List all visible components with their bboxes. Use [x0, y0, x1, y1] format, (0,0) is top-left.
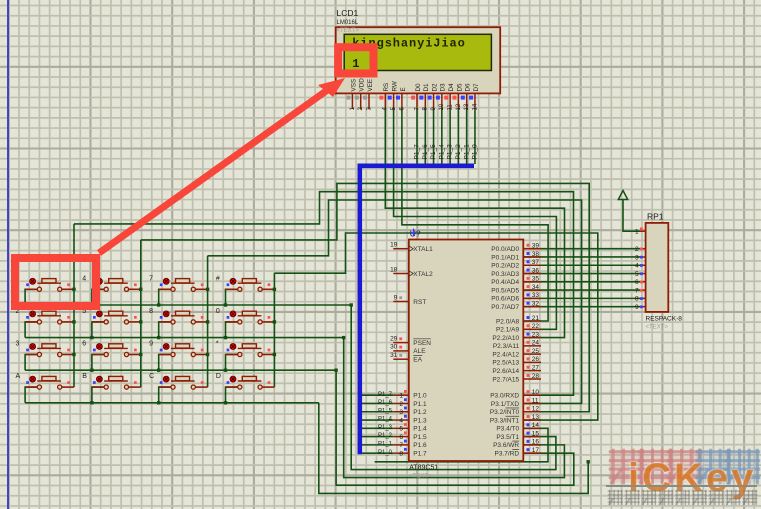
- svg-text:P1_1: P1_1: [463, 144, 470, 160]
- svg-text:P1_7: P1_7: [414, 144, 421, 160]
- svg-text:10: 10: [532, 389, 540, 396]
- svg-text:15: 15: [532, 430, 540, 437]
- svg-text:35: 35: [532, 276, 540, 283]
- svg-text:P2.2/A10: P2.2/A10: [492, 335, 519, 342]
- svg-text:P1.4: P1.4: [413, 426, 427, 433]
- svg-text:B: B: [82, 373, 87, 380]
- svg-text:18: 18: [390, 266, 398, 273]
- svg-text:8: 8: [635, 296, 639, 303]
- svg-text:7: 7: [149, 275, 153, 282]
- svg-text:ALE: ALE: [413, 348, 426, 355]
- svg-text:XTAL2: XTAL2: [413, 271, 433, 278]
- svg-text:D6: D6: [465, 83, 472, 92]
- svg-text:PSEN: PSEN: [413, 340, 431, 347]
- svg-text:14: 14: [532, 422, 540, 429]
- svg-text:P0.6/AD6: P0.6/AD6: [491, 296, 519, 303]
- svg-text:EA: EA: [413, 357, 422, 364]
- svg-text:RST: RST: [413, 299, 426, 306]
- svg-text:38: 38: [532, 251, 540, 258]
- svg-text:P0.5/AD5: P0.5/AD5: [491, 287, 519, 294]
- svg-text:3: 3: [635, 254, 639, 261]
- svg-text:P3.0/RXD: P3.0/RXD: [490, 393, 519, 400]
- svg-text:14: 14: [472, 103, 478, 110]
- svg-text:P1_0: P1_0: [472, 144, 479, 160]
- svg-text:P1.6: P1.6: [413, 442, 427, 449]
- svg-text:VDD: VDD: [359, 78, 366, 92]
- svg-text:P0.4/AD4: P0.4/AD4: [491, 279, 519, 286]
- svg-text:28: 28: [532, 373, 540, 380]
- svg-text:RP1: RP1: [647, 212, 664, 222]
- svg-text:XTAL1: XTAL1: [413, 246, 433, 253]
- svg-text:P2.7/A15: P2.7/A15: [492, 376, 519, 383]
- svg-text:RS: RS: [383, 83, 390, 92]
- svg-text:P1_2: P1_2: [455, 144, 462, 160]
- svg-text:P3.2/INT0: P3.2/INT0: [490, 409, 520, 416]
- svg-text:6: 6: [635, 279, 639, 286]
- svg-text:D0: D0: [415, 83, 422, 92]
- svg-text:4: 4: [82, 275, 86, 282]
- svg-text:5: 5: [635, 271, 639, 278]
- svg-text:12: 12: [532, 406, 540, 413]
- svg-text:P2.3/A11: P2.3/A11: [493, 343, 520, 350]
- svg-text:1: 1: [352, 57, 359, 71]
- svg-text:12: 12: [456, 103, 462, 110]
- svg-text:P0.2/AD2: P0.2/AD2: [491, 263, 519, 270]
- svg-text:P1_4: P1_4: [378, 417, 393, 423]
- svg-text:6: 6: [399, 434, 403, 441]
- svg-text:P2.4/A12: P2.4/A12: [492, 351, 519, 358]
- svg-text:P0.3/AD3: P0.3/AD3: [491, 271, 519, 278]
- svg-text:21: 21: [532, 315, 540, 322]
- svg-text:D5: D5: [456, 83, 463, 92]
- svg-text:2: 2: [635, 246, 639, 253]
- svg-text:P1.1: P1.1: [413, 401, 427, 408]
- svg-text:P3.6/WR: P3.6/WR: [493, 442, 519, 449]
- svg-text:P3.5/T1: P3.5/T1: [496, 434, 519, 441]
- svg-text:29: 29: [390, 335, 398, 342]
- svg-text:31: 31: [390, 352, 398, 359]
- svg-text:AT89C51: AT89C51: [409, 464, 438, 471]
- svg-text:33: 33: [532, 292, 540, 299]
- svg-text:39: 39: [532, 243, 540, 250]
- svg-text:P1_6: P1_6: [378, 400, 393, 406]
- svg-text:5: 5: [399, 426, 403, 433]
- svg-text:<TEXT>: <TEXT>: [337, 28, 360, 34]
- svg-text:P3.1/TXD: P3.1/TXD: [491, 401, 519, 408]
- svg-text:RW: RW: [392, 81, 399, 91]
- svg-text:<TEXT>: <TEXT>: [409, 473, 432, 479]
- svg-text:P1_4: P1_4: [438, 144, 445, 160]
- svg-text:9: 9: [149, 341, 153, 348]
- svg-text:22: 22: [532, 323, 540, 330]
- svg-text:19: 19: [390, 242, 398, 249]
- svg-text:16: 16: [532, 439, 540, 446]
- svg-text:<TEXT>: <TEXT>: [646, 324, 669, 330]
- svg-text:U?: U?: [410, 229, 421, 239]
- svg-text:27: 27: [532, 364, 540, 371]
- svg-text:11: 11: [532, 397, 539, 404]
- svg-text:13: 13: [464, 103, 470, 110]
- svg-text:P1_0: P1_0: [378, 450, 393, 456]
- svg-text:9: 9: [635, 304, 639, 311]
- svg-text:0: 0: [216, 308, 220, 315]
- svg-text:D2: D2: [431, 83, 438, 92]
- svg-text:3: 3: [16, 341, 20, 348]
- svg-text:P1_1: P1_1: [378, 441, 393, 447]
- svg-text:P2.5/A13: P2.5/A13: [492, 360, 519, 367]
- svg-text:11: 11: [448, 104, 454, 111]
- svg-text:P0.0/AD0: P0.0/AD0: [491, 246, 519, 253]
- svg-text:LM016L: LM016L: [337, 20, 359, 26]
- svg-text:P3.3/INT1: P3.3/INT1: [490, 417, 520, 424]
- svg-text:P3.4/T0: P3.4/T0: [496, 426, 519, 433]
- svg-text:P2.6/A14: P2.6/A14: [492, 368, 519, 375]
- svg-text:2: 2: [399, 401, 403, 408]
- svg-text:D7: D7: [473, 83, 480, 92]
- svg-text:23: 23: [532, 331, 540, 338]
- svg-text:P1_7: P1_7: [378, 392, 393, 398]
- svg-text:P1_3: P1_3: [378, 425, 393, 431]
- svg-text:D3: D3: [440, 83, 447, 92]
- svg-text:P0.7/AD7: P0.7/AD7: [491, 304, 519, 311]
- svg-text:D4: D4: [448, 83, 455, 92]
- svg-text:P1.5: P1.5: [413, 434, 427, 441]
- svg-text:34: 34: [532, 284, 540, 291]
- svg-text:37: 37: [532, 259, 540, 266]
- svg-text:13: 13: [532, 414, 540, 421]
- svg-text:P2.1/A9: P2.1/A9: [496, 327, 520, 334]
- svg-text:8: 8: [149, 308, 153, 315]
- svg-text:30: 30: [390, 344, 398, 351]
- svg-text:P1.3: P1.3: [413, 417, 427, 424]
- svg-text:1: 1: [635, 229, 639, 236]
- svg-text:RESPACK-8: RESPACK-8: [646, 315, 683, 322]
- svg-text:P1.0: P1.0: [413, 393, 427, 400]
- svg-text:6: 6: [82, 341, 86, 348]
- svg-text:7: 7: [635, 287, 639, 294]
- svg-text:E: E: [400, 87, 407, 91]
- svg-text:VEE: VEE: [367, 79, 374, 92]
- svg-text:P3.7/RD: P3.7/RD: [495, 450, 520, 457]
- svg-text:P1_6: P1_6: [422, 144, 429, 160]
- svg-text:LCD1: LCD1: [337, 8, 359, 18]
- svg-text:P0.1/AD1: P0.1/AD1: [491, 254, 519, 261]
- svg-text:1: 1: [399, 393, 403, 400]
- svg-text:32: 32: [532, 300, 540, 307]
- svg-text:4: 4: [399, 417, 403, 424]
- svg-text:P1_3: P1_3: [447, 144, 454, 160]
- svg-text:D1: D1: [423, 83, 430, 92]
- svg-text:A: A: [16, 373, 21, 380]
- svg-text:4: 4: [635, 263, 639, 270]
- svg-text:9: 9: [394, 294, 398, 301]
- svg-text:P1_2: P1_2: [378, 433, 393, 439]
- svg-text:P1.2: P1.2: [413, 409, 427, 416]
- svg-text:17: 17: [532, 447, 540, 454]
- svg-text:3: 3: [399, 409, 403, 416]
- svg-text:10: 10: [439, 103, 445, 110]
- svg-text:24: 24: [532, 340, 540, 347]
- svg-text:26: 26: [532, 356, 540, 363]
- svg-text:36: 36: [532, 267, 540, 274]
- svg-text:D: D: [216, 373, 221, 380]
- svg-text:*: *: [216, 341, 219, 348]
- svg-text:P1_5: P1_5: [430, 144, 437, 160]
- svg-text:P1_5: P1_5: [378, 408, 393, 414]
- svg-text:P1.7: P1.7: [413, 450, 427, 457]
- svg-text:P2.0/A8: P2.0/A8: [496, 318, 520, 325]
- svg-text:C: C: [149, 373, 154, 380]
- svg-text:25: 25: [532, 348, 540, 355]
- svg-text:7: 7: [399, 442, 403, 449]
- svg-text:VSS: VSS: [350, 79, 357, 92]
- svg-text:#: #: [216, 275, 220, 282]
- svg-text:8: 8: [399, 450, 403, 457]
